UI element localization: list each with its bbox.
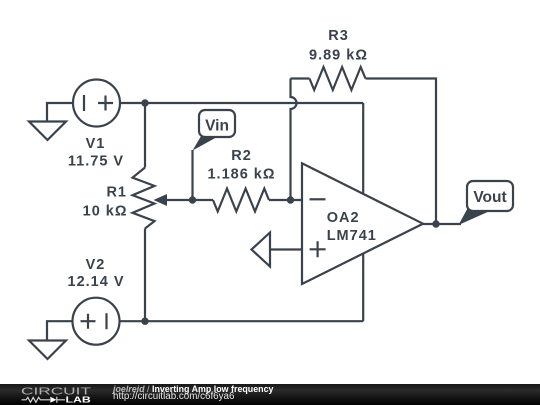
junction dot: V1/R1 node — [141, 99, 148, 106]
svg-text:V2: V2 — [86, 257, 106, 273]
resistor R1 (potentiometer body) — [133, 168, 155, 229]
CircuitLab logo — [0, 384, 113, 405]
svg-text:R3: R3 — [328, 28, 349, 44]
potentiometer wiper arrow — [154, 194, 168, 206]
wire: V2 positive rail (horizontal y=321.5) — [120, 320, 364, 322]
junction dot: inverting input node — [287, 196, 294, 203]
svg-text:V1: V1 — [86, 136, 106, 152]
svg-text:LAB: LAB — [66, 394, 91, 404]
wire: op-amp V+ supply drop (x=363) — [362, 103, 364, 194]
logo diode — [50, 396, 56, 402]
wire: ground to non-inverting input — [270, 248, 302, 250]
op-amp OA2 triangle — [302, 163, 423, 284]
wire: op-amp V- supply to V2 rail — [362, 254, 364, 321]
wire: V1 negative to ground — [47, 103, 74, 121]
wire: wiper to Vin node — [166, 199, 213, 201]
wire: feedback vertical with hop over supply rail — [291, 79, 297, 201]
wire: Vin node riser — [191, 150, 193, 200]
svg-text:9.89 kΩ: 9.89 kΩ — [309, 47, 368, 63]
footer bar — [0, 384, 540, 405]
voltage source V2 — [73, 298, 120, 345]
wire: op-amp output to Vout — [423, 223, 461, 225]
wire: V2 negative to ground — [47, 321, 73, 339]
svg-text:10 kΩ: 10 kΩ — [83, 204, 128, 220]
junction dot: V2/R1 node — [141, 318, 148, 325]
wire: node V1+ down to R1 top — [144, 103, 146, 168]
resistor R3 — [310, 67, 366, 90]
flag Vout — [459, 181, 514, 225]
flag Vin — [193, 110, 236, 151]
svg-text:Vin: Vin — [205, 118, 229, 135]
wire: R1 bottom to V2 rail — [144, 229, 146, 322]
wire: R3 right lead down to output — [366, 79, 437, 225]
wire: V1 positive terminal to supply rail (horizontal y=102.5) — [120, 102, 364, 104]
footer url — [113, 392, 234, 402]
junction dot: output node — [432, 220, 439, 227]
op-amp minus sign — [310, 198, 326, 200]
wire: R2 to inverting input — [269, 199, 302, 201]
svg-text:Vout: Vout — [473, 189, 506, 206]
svg-text:12.14 V: 12.14 V — [68, 274, 125, 290]
junction dot: wiper/Vin node — [189, 196, 196, 203]
ground symbol (V1) — [29, 122, 66, 141]
wire: R3 left lead — [291, 77, 310, 79]
resistor R2 — [213, 189, 269, 212]
svg-text:LM741: LM741 — [327, 228, 377, 244]
voltage source V1 — [73, 80, 120, 127]
footer title — [113, 385, 273, 394]
ground symbol (V2) — [29, 341, 66, 360]
svg-text:OA2: OA2 — [327, 210, 360, 226]
svg-text:11.75 V: 11.75 V — [68, 154, 124, 170]
svg-text:R2: R2 — [231, 148, 252, 164]
op-amp plus sign — [310, 241, 326, 257]
logo resistor squiggle — [22, 397, 50, 402]
svg-text:R1: R1 — [106, 184, 127, 200]
svg-text:1.186 kΩ: 1.186 kΩ — [207, 167, 275, 183]
ground symbol (non-inverting input) — [252, 233, 271, 267]
